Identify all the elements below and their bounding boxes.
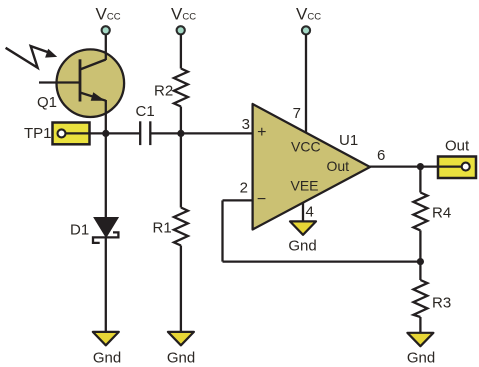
wire Vcc3 to op-amp pin 7 <box>305 34 307 132</box>
wire D1 to Gnd1 <box>105 237 107 332</box>
ground Gnd4 symbol <box>407 333 433 346</box>
Out terminal circle <box>462 163 470 171</box>
svg-text:R2: R2 <box>154 83 173 100</box>
svg-text:R3: R3 <box>432 295 451 312</box>
power terminal Vcc2 <box>177 26 185 34</box>
wire into Out box <box>438 165 466 167</box>
wire feedback bottom segment to node C <box>223 260 421 262</box>
capacitor C1 left plate <box>139 121 141 145</box>
svg-text:Gnd: Gnd <box>407 350 435 367</box>
wire C1 to node B <box>150 132 181 134</box>
svg-text:Gnd: Gnd <box>93 350 121 367</box>
diode D1 triangle <box>94 218 118 238</box>
wire node B to R1 <box>180 133 182 207</box>
test point TP1 box <box>53 123 90 145</box>
wire feedback vertical segment <box>221 200 223 261</box>
wire op-amp pin 4 to Gnd3 <box>302 203 304 223</box>
wire node A to C1 left plate <box>106 132 140 134</box>
power terminal Vcc1 <box>102 26 110 34</box>
resistor R1 zigzag <box>174 208 188 246</box>
wire node B to op-amp pin 3 <box>181 132 253 134</box>
ground Gnd3 symbol <box>290 221 316 234</box>
svg-text:Out: Out <box>445 138 470 155</box>
svg-text:Q1: Q1 <box>37 94 57 111</box>
wire node D to R4 <box>419 167 421 193</box>
test point Out box <box>438 157 476 179</box>
svg-text:R1: R1 <box>153 220 172 237</box>
wire R1 to Gnd2 <box>180 246 182 333</box>
svg-text:VCC: VCC <box>291 139 321 155</box>
Q1 base bar <box>79 59 82 101</box>
svg-text:C1: C1 <box>136 103 155 120</box>
svg-text:R4: R4 <box>432 205 451 222</box>
svg-text:U1: U1 <box>339 132 358 149</box>
node C junction dot <box>417 258 424 265</box>
resistor R3 zigzag <box>413 280 427 317</box>
node B junction dot <box>177 130 184 137</box>
wire op-amp pin 2 feedback left segment <box>223 199 253 201</box>
svg-text:TP1: TP1 <box>24 125 52 142</box>
Q1 emitter diagonal <box>80 93 106 101</box>
TP1 terminal circle <box>58 129 66 137</box>
capacitor C1 right plate <box>149 121 151 145</box>
svg-text:VEE: VEE <box>291 178 319 194</box>
light arrow head <box>45 49 57 58</box>
Q1 collector diagonal <box>80 60 106 70</box>
svg-text:D1: D1 <box>70 221 89 238</box>
wire node C to R3 <box>419 262 421 280</box>
wire node A to D1 <box>105 133 107 218</box>
Q1 emitter arrow head <box>91 92 106 101</box>
svg-text:2: 2 <box>240 180 248 197</box>
node D junction dot (output divider tap) <box>417 163 424 170</box>
ground Gnd1 symbol <box>93 332 119 345</box>
svg-text:3: 3 <box>242 116 250 133</box>
op-amp U1 body triangle <box>253 104 370 230</box>
wire Vcc2 to R2 <box>180 34 182 69</box>
wire Vcc1 to Q1 collector <box>105 34 107 60</box>
wire TP1 to node A <box>62 132 106 134</box>
svg-text:+: + <box>257 124 266 141</box>
svg-text:4: 4 <box>306 204 314 221</box>
Q1 base lead <box>39 81 80 83</box>
node A junction dot <box>102 130 109 137</box>
svg-text:−: − <box>257 191 266 208</box>
power terminal Vcc3 <box>302 26 310 34</box>
wire Q1 emitter to node A <box>105 100 107 133</box>
light arrow into Q1 <box>6 46 49 68</box>
wire op-amp pin 3 input <box>251 132 253 134</box>
svg-text:Gnd: Gnd <box>167 350 195 367</box>
diode D1 zener cathode bar with hooks <box>93 232 118 243</box>
wire R2 to node B <box>180 107 182 134</box>
wire R4 to node C <box>419 230 421 261</box>
wire op-amp output pin 6 to Out <box>369 165 438 167</box>
wire R3 to Gnd4 <box>419 317 421 332</box>
svg-text:Out: Out <box>327 158 350 174</box>
svg-text:7: 7 <box>293 105 301 122</box>
svg-text:6: 6 <box>377 147 385 164</box>
resistor R2 zigzag <box>174 69 188 107</box>
svg-text:Gnd: Gnd <box>288 238 316 255</box>
ground Gnd2 symbol <box>168 332 194 345</box>
phototransistor Q1 body circle <box>57 49 125 117</box>
resistor R4 zigzag <box>413 193 427 231</box>
